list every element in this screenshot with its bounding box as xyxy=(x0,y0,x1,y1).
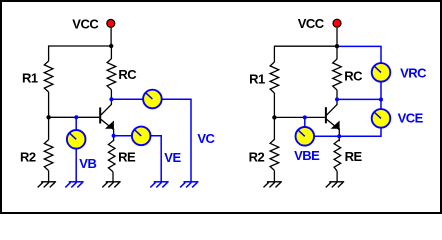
transistor Q2 emitter arrow xyxy=(331,121,340,129)
wire VCC stem right xyxy=(336,28,338,46)
label RE left xyxy=(118,149,136,164)
label RC right xyxy=(344,68,363,83)
wire R2 to ground xyxy=(48,171,50,182)
node emitter right xyxy=(337,134,341,138)
ground under VB meter xyxy=(65,182,83,188)
node emitter left xyxy=(112,134,116,138)
node base rail junction left xyxy=(46,115,50,119)
svg-text:R2: R2 xyxy=(20,150,36,165)
wire R2 stem right xyxy=(273,117,275,139)
node VCC left (red) xyxy=(107,19,115,27)
wire RE to ground right xyxy=(336,171,338,182)
label VC xyxy=(197,131,215,146)
label VCC right xyxy=(298,16,325,31)
label VCE xyxy=(398,110,424,125)
wire VE blue xyxy=(114,136,162,182)
transistor Q1 emitter lead xyxy=(101,119,114,129)
svg-text:R1: R1 xyxy=(22,71,38,86)
wire RC to collector node xyxy=(110,90,112,105)
node top rail junction right xyxy=(335,44,339,48)
transistor Q2 collector lead xyxy=(327,105,337,116)
svg-text:VRC: VRC xyxy=(400,65,427,80)
svg-text:VBE: VBE xyxy=(294,148,320,163)
ground under VE wire xyxy=(150,182,168,188)
transistor Q2 base bar xyxy=(325,107,327,123)
resistor R2 xyxy=(44,140,53,171)
wire top rail left xyxy=(49,45,112,47)
svg-text:RE: RE xyxy=(345,149,363,164)
wire RE to ground xyxy=(112,172,114,182)
label R1 right xyxy=(249,71,265,86)
svg-text:VE: VE xyxy=(164,150,181,165)
resistor RE left xyxy=(108,141,115,172)
voltmeter VRC xyxy=(372,63,391,82)
node top rail junction left xyxy=(109,44,113,48)
ground under RE right xyxy=(326,182,344,188)
ground under R2 right xyxy=(264,182,282,188)
wire emitter to node right xyxy=(338,129,340,142)
svg-text:VC: VC xyxy=(197,131,215,146)
resistor R1 xyxy=(44,61,53,92)
node collector right xyxy=(335,97,339,101)
voltmeter VCE xyxy=(372,109,391,128)
label VCC left xyxy=(72,17,99,32)
svg-text:R1: R1 xyxy=(249,71,265,86)
resistor R1 right xyxy=(270,62,279,93)
svg-text:VCC: VCC xyxy=(72,17,99,32)
label VBE xyxy=(294,148,320,163)
svg-text:VB: VB xyxy=(79,156,96,171)
label R1 left xyxy=(22,71,38,86)
wire VBE to emitter blue xyxy=(305,135,340,137)
wire VBE tap blue xyxy=(304,117,306,136)
label R2 right xyxy=(249,149,265,164)
wire VRC-VCE column blue xyxy=(337,46,381,136)
svg-text:R2: R2 xyxy=(249,149,265,164)
transistor Q1 base bar xyxy=(99,107,101,123)
node base rail junction right xyxy=(272,115,276,119)
ground under RE left xyxy=(102,182,120,188)
node collector left xyxy=(109,97,113,101)
voltmeter VBE xyxy=(296,127,315,146)
svg-text:VCE: VCE xyxy=(398,110,424,125)
svg-text:RC: RC xyxy=(118,67,137,82)
resistor R2 right xyxy=(270,139,279,170)
wire RC stem left xyxy=(110,45,112,59)
wire left column top right xyxy=(273,46,275,63)
transistor Q1 emitter arrow xyxy=(105,121,114,129)
wire top rail right xyxy=(274,45,337,47)
wire left column top xyxy=(48,45,50,61)
node VCC right (red) xyxy=(333,19,341,27)
wire R2 stem xyxy=(48,117,50,140)
node VBE tap xyxy=(303,115,307,119)
wire R1 to base rail right xyxy=(273,93,275,117)
wire base rail right xyxy=(274,116,325,118)
wire R2 to ground right xyxy=(273,170,275,181)
wire base rail left xyxy=(49,116,100,118)
voltmeter VB xyxy=(67,130,86,149)
svg-text:RE: RE xyxy=(118,149,136,164)
wire VC blue xyxy=(111,99,191,182)
svg-text:VCC: VCC xyxy=(298,16,325,31)
voltmeter VE xyxy=(132,127,151,146)
transistor Q1 collector lead xyxy=(101,104,112,115)
wire RC to collector node right xyxy=(336,90,338,105)
wire VCC stem left xyxy=(110,28,112,46)
ground under R2 left xyxy=(38,182,56,188)
node meter column junction xyxy=(379,98,383,102)
resistor RC left xyxy=(107,59,116,90)
label VE xyxy=(164,150,181,165)
wire collector to meters blue xyxy=(337,98,381,100)
resistor RC right xyxy=(333,59,342,90)
label RC left xyxy=(118,67,137,82)
resistor RE right xyxy=(334,140,341,171)
svg-text:RC: RC xyxy=(344,68,363,83)
wire R1 to base rail xyxy=(48,92,50,117)
label VRC xyxy=(400,65,427,80)
wire RC stem right xyxy=(336,46,338,60)
label VB xyxy=(79,156,96,171)
node VB tap xyxy=(74,115,78,119)
ground under VC wire xyxy=(180,182,198,188)
wire VB tap blue xyxy=(75,117,77,182)
label RE right xyxy=(345,149,363,164)
voltmeter VC xyxy=(143,90,162,109)
wire emitter to node xyxy=(113,129,115,142)
label R2 left xyxy=(20,150,36,165)
transistor Q2 emitter lead xyxy=(327,119,340,130)
